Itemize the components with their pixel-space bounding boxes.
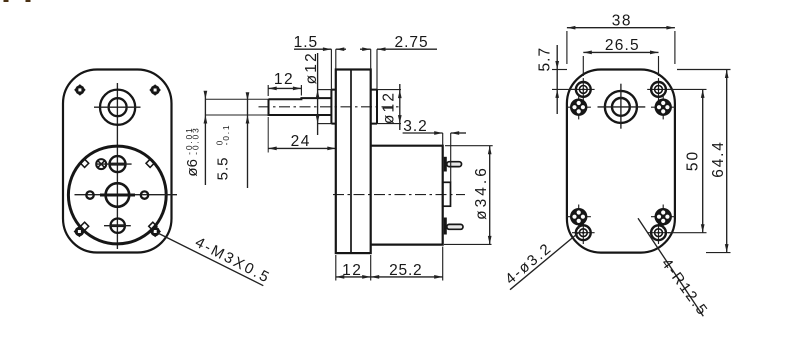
mounting hole top-right bbox=[149, 84, 161, 96]
dim 1.5 ext lines bbox=[331, 49, 335, 89]
vertical centerline bbox=[116, 83, 118, 249]
svg-text:38: 38 bbox=[612, 12, 632, 29]
dim 26.5 line bbox=[583, 51, 658, 53]
rear hole crosshair bbox=[598, 84, 646, 129]
terminal lower pin bbox=[447, 224, 463, 229]
dim 12 shaft flat ext lines bbox=[268, 85, 301, 96]
dim 25.2 arrows bbox=[371, 275, 380, 279]
dim 12 arrows bbox=[268, 87, 277, 91]
motor axis centerline bbox=[333, 194, 465, 196]
bottom dims ext lines bbox=[336, 247, 443, 281]
label 5.7 bbox=[537, 47, 554, 72]
dia12 left arrows bbox=[316, 90, 320, 99]
right pin hole bbox=[141, 191, 148, 198]
diamond key lower-right bbox=[149, 222, 157, 230]
svg-text:4-M3X0.5: 4-M3X0.5 bbox=[192, 234, 273, 287]
top screw hole bbox=[110, 156, 126, 172]
svg-text:ø34.6: ø34.6 bbox=[473, 165, 490, 220]
gearbox rear outline bbox=[567, 70, 675, 253]
shaft outline bbox=[269, 98, 332, 115]
X marked hole bbox=[96, 159, 106, 169]
shaft centerline bbox=[259, 106, 400, 108]
svg-text:5.5: 5.5 bbox=[215, 157, 232, 181]
dim 38 line bbox=[567, 27, 675, 29]
svg-text:50: 50 bbox=[684, 150, 701, 171]
dim 24 line bbox=[268, 147, 336, 149]
top cluster horizontal line bbox=[96, 163, 132, 165]
dim 64.4 arrows bbox=[725, 70, 729, 79]
svg-text:-0.03: -0.03 bbox=[191, 126, 201, 154]
dim 5.7 arrows bbox=[555, 61, 559, 70]
ring hole bottom-right bbox=[647, 221, 670, 244]
screw head top-left bbox=[567, 95, 591, 119]
dim 12 bottom line bbox=[336, 276, 371, 278]
terminal upper pin bbox=[447, 162, 462, 167]
front boss outline bbox=[331, 90, 335, 124]
dia6 dimension line bbox=[204, 93, 206, 185]
ring hole top-left bbox=[572, 78, 595, 101]
dia34.6 arrows bbox=[488, 146, 492, 155]
svg-text:12: 12 bbox=[274, 71, 294, 88]
label dia12 left bbox=[303, 51, 320, 84]
gear circle horizontal centerline bbox=[75, 194, 178, 196]
output shaft hole inner bbox=[109, 98, 127, 116]
dim 64.4 ext lines bbox=[677, 70, 731, 253]
svg-text:25.2: 25.2 bbox=[389, 262, 422, 279]
gear case circle bbox=[68, 146, 166, 244]
svg-text:4-R12.5: 4-R12.5 bbox=[658, 255, 712, 319]
leader 4-dia3.2 bbox=[510, 232, 580, 290]
label 4-dia3.2 bbox=[502, 240, 555, 288]
dim 50 arrows bbox=[701, 89, 705, 98]
dim 3.2 ext lines bbox=[443, 133, 451, 182]
leader 4-R12.5 bbox=[638, 218, 703, 316]
dim 38 arrows bbox=[567, 26, 576, 30]
rear shaft boss outer bbox=[605, 91, 637, 123]
label 5.5 with tolerance bbox=[214, 124, 231, 181]
dim 50 ext lines bbox=[668, 89, 707, 232]
label 64.4 bbox=[710, 140, 727, 177]
leader line 4-M3X0.5 bbox=[158, 233, 263, 286]
screw head top-right bbox=[651, 95, 675, 119]
label dia34.6 bbox=[473, 165, 490, 220]
dim 24 ext line bbox=[267, 117, 269, 153]
motor body outline bbox=[371, 146, 443, 245]
dia6 extension top bbox=[205, 98, 268, 100]
rear boss dia12 ext lines bbox=[377, 90, 401, 124]
dim 12 shaft line bbox=[268, 87, 301, 89]
dim 26.5 arrows bbox=[583, 51, 592, 55]
label dia12 right bbox=[381, 91, 398, 124]
dim 24 arrows bbox=[268, 147, 277, 151]
dia34.6 dimension line bbox=[489, 146, 491, 245]
svg-text:26.5: 26.5 bbox=[605, 37, 640, 54]
dim 5.7 ext lines bbox=[552, 70, 576, 90]
center hole bbox=[100, 183, 135, 207]
mounting hole top-left bbox=[74, 84, 86, 96]
svg-text:1.5: 1.5 bbox=[294, 34, 319, 51]
diamond key upper-right bbox=[146, 159, 154, 167]
crop remnant marks top edge bbox=[4, 0, 9, 2]
label 50 bbox=[684, 150, 701, 171]
svg-text:2.75: 2.75 bbox=[395, 34, 429, 51]
screw head bottom-left bbox=[567, 205, 591, 229]
rear shaft hole inner bbox=[612, 98, 630, 116]
dim 1.5 line with arrows bbox=[294, 48, 346, 50]
dim 5.5 line bbox=[247, 94, 249, 188]
svg-text:ø12: ø12 bbox=[381, 91, 398, 124]
bottom screw hole bbox=[111, 219, 126, 233]
dim 64.4 line bbox=[726, 70, 728, 253]
dim 26.5 ext lines bbox=[583, 56, 658, 76]
dia12 left dimension line bbox=[317, 53, 319, 135]
ring hole bottom-left bbox=[572, 221, 595, 244]
flange parting line bbox=[350, 70, 352, 254]
svg-text:ø6: ø6 bbox=[184, 159, 201, 177]
svg-text:5.7: 5.7 bbox=[537, 47, 554, 72]
dia12 right arrows bbox=[398, 90, 402, 99]
ring hole top-right bbox=[647, 78, 670, 101]
terminal upper tab bbox=[444, 157, 447, 172]
label 4-M3X0.5 bbox=[192, 234, 273, 287]
svg-text:12: 12 bbox=[342, 262, 362, 279]
dim 38 ext lines bbox=[567, 31, 675, 64]
dia34.6 ext lines bbox=[444, 146, 493, 245]
svg-text:ø12: ø12 bbox=[303, 51, 320, 84]
dim 5.7 line bbox=[556, 45, 558, 114]
diamond key lower-left bbox=[81, 222, 89, 230]
bottom screw horizontal line bbox=[104, 225, 131, 227]
dim 2.75 ext lines bbox=[371, 49, 377, 89]
boss dia12 ext lines bbox=[318, 90, 331, 124]
label 4-R12.5 bbox=[658, 255, 712, 319]
rear boss outline bbox=[371, 90, 377, 124]
dia6 extension bottom bbox=[205, 114, 268, 116]
screw head bottom-right bbox=[651, 205, 675, 229]
terminal lower tab bbox=[444, 218, 447, 235]
svg-text:64.4: 64.4 bbox=[710, 140, 727, 177]
dim 50 line bbox=[702, 89, 704, 232]
svg-text:-0.1: -0.1 bbox=[221, 124, 231, 146]
dim 3.2 line with arrows bbox=[403, 132, 466, 134]
flange plate bbox=[336, 70, 371, 254]
dim 2.75 line with arrows bbox=[360, 48, 437, 50]
output shaft hole outer bbox=[100, 90, 135, 125]
dim 25.2 line bbox=[371, 276, 443, 278]
brush cap bump bbox=[443, 182, 451, 206]
svg-text:3.2: 3.2 bbox=[403, 118, 428, 135]
shaft hole horizontal crosshair bbox=[94, 106, 141, 108]
dim 12 bottom arrows bbox=[336, 275, 345, 279]
mounting hole bottom-left bbox=[74, 226, 86, 238]
dia6 arrows bbox=[204, 91, 208, 100]
dim 5.5 arrows bbox=[246, 92, 250, 101]
gearbox front outline bbox=[63, 70, 172, 253]
mounting hole bottom-right bbox=[149, 226, 161, 238]
svg-text:4-ø3.2: 4-ø3.2 bbox=[502, 240, 555, 288]
dia12 right dimension line bbox=[399, 84, 401, 130]
label dia6 with tolerance bbox=[184, 126, 201, 176]
svg-text:24: 24 bbox=[291, 133, 311, 150]
diamond key upper-left bbox=[81, 159, 89, 167]
left pin hole bbox=[86, 191, 93, 198]
